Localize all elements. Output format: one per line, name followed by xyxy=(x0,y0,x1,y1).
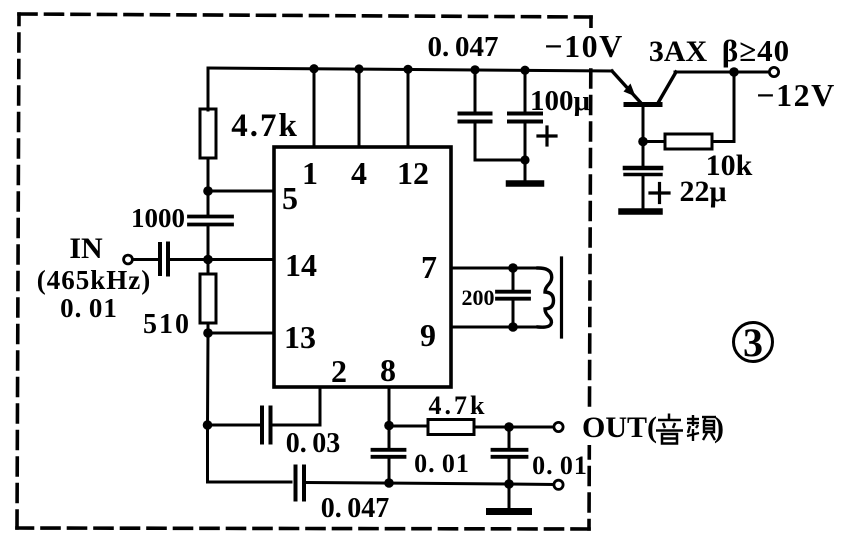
inductor L transformer winding xyxy=(538,268,554,327)
wire: left rail down xyxy=(206,333,210,482)
svg-text:4.7k: 4.7k xyxy=(429,391,488,420)
wire: collector rail to -12V xyxy=(675,71,769,74)
svg-text:0. 01: 0. 01 xyxy=(414,449,470,478)
svg-text:1: 1 xyxy=(302,155,318,191)
wire: pin13 lead xyxy=(208,332,274,335)
svg-text:3: 3 xyxy=(743,320,763,365)
wire: 0.047 to 100u bottom join xyxy=(475,159,525,162)
wire: 10k to rail xyxy=(712,72,734,142)
node: junction at pin14 lead xyxy=(203,255,213,265)
capacitor 0.047 (bottom) xyxy=(296,467,305,500)
svg-text:22μ: 22μ xyxy=(679,175,726,208)
wire: IN lead xyxy=(133,258,157,261)
wire: 4.7k top lead xyxy=(207,68,210,110)
svg-text:−12V: −12V xyxy=(756,77,835,113)
svg-text:7: 7 xyxy=(421,249,437,285)
transformer core line xyxy=(560,258,563,337)
svg-text:9: 9 xyxy=(420,317,436,353)
svg-text:2: 2 xyxy=(331,353,347,389)
resistor R 10k xyxy=(665,134,712,149)
node: junction pin9/cap200 xyxy=(508,322,518,332)
transistor Q1 3AX: emitter wire from bus xyxy=(612,71,641,103)
wire: pin4 stub xyxy=(358,69,361,147)
wire: top supply bus xyxy=(208,68,612,71)
svg-text:1000: 1000 xyxy=(131,203,185,233)
svg-text:β≥40: β≥40 xyxy=(722,33,790,68)
capacitor 0.01 (output) xyxy=(508,427,511,448)
emitter arrowhead xyxy=(624,84,636,97)
chinese char pin (frequency) xyxy=(687,415,716,441)
collector wire xyxy=(658,72,676,103)
svg-text:0. 047: 0. 047 xyxy=(321,493,390,524)
node: junction pin7/cap200 xyxy=(508,263,518,273)
svg-text:200: 200 xyxy=(462,285,495,310)
node: junction at out cap xyxy=(504,422,514,432)
node: junction at pin13 lead xyxy=(203,328,213,338)
transistor base bar xyxy=(626,102,660,107)
node: junction base/10k/22u xyxy=(638,137,648,147)
svg-text:5: 5 xyxy=(282,180,298,216)
capacitor C 22u electrolytic xyxy=(642,142,645,165)
node: junction at 0.03 branch xyxy=(203,420,213,430)
ground (bottom) xyxy=(490,508,529,515)
node: junction bottom rail at pin8 cap xyxy=(384,478,394,488)
svg-text:OUT(: OUT( xyxy=(582,411,657,444)
svg-text:0. 047: 0. 047 xyxy=(427,31,498,63)
node: junction bottom rail at output cap xyxy=(504,479,514,489)
node: junction at pin5 lead xyxy=(203,186,213,196)
node: bus junction above pin12 xyxy=(403,65,412,74)
terminal IN xyxy=(124,255,133,264)
svg-text:0. 01: 0. 01 xyxy=(60,293,118,323)
svg-text:): ) xyxy=(714,411,724,444)
ground (top, under 100u) xyxy=(509,180,541,187)
chinese char yin (audio) xyxy=(656,414,683,444)
wire: base lead down xyxy=(642,106,645,142)
wire: pin12 stub xyxy=(407,69,410,147)
label OUT xyxy=(583,408,597,445)
svg-text:100μ: 100μ xyxy=(530,85,591,117)
plus sign of 22u xyxy=(650,184,669,203)
wire: pin8 stub xyxy=(388,387,391,425)
wire: pin1 stub xyxy=(313,69,316,147)
capacitor 0.03 xyxy=(208,424,261,427)
wire: 4.7k to OUT xyxy=(474,426,554,429)
node: bus junction above pin1 xyxy=(309,64,318,73)
svg-text:3AX: 3AX xyxy=(649,35,708,68)
figure number circled 3 xyxy=(734,323,773,362)
ground (under 22u) xyxy=(622,208,660,215)
label -10V xyxy=(546,28,622,64)
svg-text:4.7k: 4.7k xyxy=(231,108,299,144)
capacitor 0.01 input coupling xyxy=(160,244,168,275)
node: bus junction above pin4 xyxy=(354,64,363,73)
wire: pin9 lead xyxy=(451,326,538,329)
wire: 4.7k bottom lead xyxy=(207,158,210,191)
capacitor 0.047 (top) xyxy=(460,114,491,122)
resistor R 510 xyxy=(207,260,210,275)
resistor R 4.7k (top) xyxy=(200,109,216,158)
capacitor 200 xyxy=(512,268,515,290)
capacitor 1000 xyxy=(207,191,210,215)
svg-text:0. 03: 0. 03 xyxy=(286,428,341,459)
svg-text:0. 01: 0. 01 xyxy=(532,451,588,480)
capacitor 0.01 (at pin8) xyxy=(388,426,391,449)
dashed enclosure border xyxy=(17,14,591,529)
svg-text:IN: IN xyxy=(69,232,103,265)
node: bus junction at 100u cap xyxy=(520,66,529,75)
wire: to 10k xyxy=(643,140,665,143)
wire: pin5 lead xyxy=(208,190,274,193)
node: junction under 100u xyxy=(520,155,529,164)
svg-text:510: 510 xyxy=(143,309,191,340)
capacitor C 100u electrolytic xyxy=(509,114,541,122)
svg-text:−10V: −10V xyxy=(544,28,623,64)
node: junction at pin8 xyxy=(384,421,394,431)
wire: output cap to ground xyxy=(508,484,511,508)
wire: pin8 to 4.7k bottom xyxy=(389,425,428,428)
terminal -12V xyxy=(769,67,778,76)
wire: pin2 stub xyxy=(319,387,322,425)
IC U1 body xyxy=(274,147,451,387)
svg-text:13: 13 xyxy=(284,319,316,355)
wire: bottom rail xyxy=(208,481,292,484)
wire: pin7 lead xyxy=(451,267,538,270)
svg-text:4: 4 xyxy=(351,155,367,191)
node: junction on collector rail xyxy=(729,67,739,77)
svg-text:8: 8 xyxy=(380,352,396,388)
svg-text:14: 14 xyxy=(285,247,317,283)
resistor R 4.7k (bottom) xyxy=(428,420,474,435)
plus sign of 100u xyxy=(538,127,556,145)
terminal OUT bottom xyxy=(554,480,563,489)
svg-text:(465kHz): (465kHz) xyxy=(37,265,151,295)
svg-text:12: 12 xyxy=(397,155,429,191)
node: bus junction at 0.047 cap xyxy=(470,65,479,74)
wire: coupling cap to pin14 xyxy=(170,258,274,261)
terminal OUT top xyxy=(554,422,563,431)
